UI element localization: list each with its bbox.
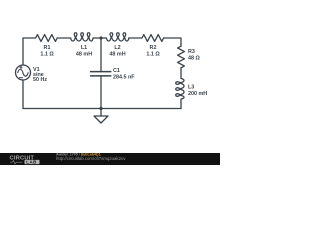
left wire top segment — [22, 38, 24, 65]
wire C1 bottom plate to bottom wire — [100, 76, 102, 109]
V1 sine glyph — [18, 69, 28, 76]
svg-text:50 Hz: 50 Hz — [33, 77, 47, 83]
capacitor C1 plates — [91, 72, 111, 76]
svg-text:L3: L3 — [188, 85, 194, 91]
wire L3 to bottom-right corner — [180, 99, 182, 108]
node junction dot bottom — [99, 107, 102, 110]
svg-text:L2: L2 — [114, 45, 120, 51]
svg-text:1.1 Ω: 1.1 Ω — [146, 52, 160, 58]
svg-text:L1: L1 — [81, 45, 87, 51]
bottom wire — [23, 108, 181, 110]
wire node to C1 top plate — [100, 38, 102, 72]
svg-text:LAB: LAB — [26, 159, 37, 164]
V1 plus sign — [20, 66, 23, 69]
ground stub — [100, 109, 102, 117]
inductor L3 — [176, 79, 184, 100]
wire L1 to node — [93, 37, 106, 39]
resistor R2 — [142, 35, 164, 42]
footer bar — [0, 153, 220, 165]
wire R2 to top-right corner then down to R3 — [164, 38, 181, 46]
wire R1 to L1 — [57, 37, 70, 39]
svg-text:R1: R1 — [44, 45, 51, 51]
svg-text:48 Ω: 48 Ω — [188, 56, 200, 62]
svg-text:200 mH: 200 mH — [188, 91, 207, 97]
resistor R3 — [178, 46, 185, 68]
inductor L1 — [71, 33, 94, 41]
wire L2 to R2 — [129, 37, 142, 39]
inductor L2 — [106, 33, 128, 41]
footer logo squiggle — [10, 161, 23, 164]
wire top-left horizontal — [23, 37, 36, 39]
svg-text:C1: C1 — [113, 68, 120, 74]
svg-text:http://circuitlab.com/c67smq2o: http://circuitlab.com/c67smq2oak2ov — [56, 156, 126, 161]
wire R3 to L3 — [180, 68, 182, 79]
left wire bottom segment — [22, 80, 24, 109]
svg-text:R3: R3 — [188, 49, 195, 55]
resistor R1 — [36, 35, 58, 42]
V1 minus sign — [19, 77, 23, 79]
source V1 circle — [16, 65, 31, 80]
node junction dot top — [99, 36, 102, 39]
svg-text:48 mH: 48 mH — [109, 52, 125, 58]
ground symbol triangle — [94, 116, 108, 123]
svg-text:1.1 Ω: 1.1 Ω — [40, 52, 54, 58]
svg-text:48 mH: 48 mH — [76, 52, 92, 58]
svg-text:284.5 nF: 284.5 nF — [113, 75, 135, 81]
footer logo LAB badge — [25, 160, 40, 164]
svg-text:R2: R2 — [150, 45, 157, 51]
